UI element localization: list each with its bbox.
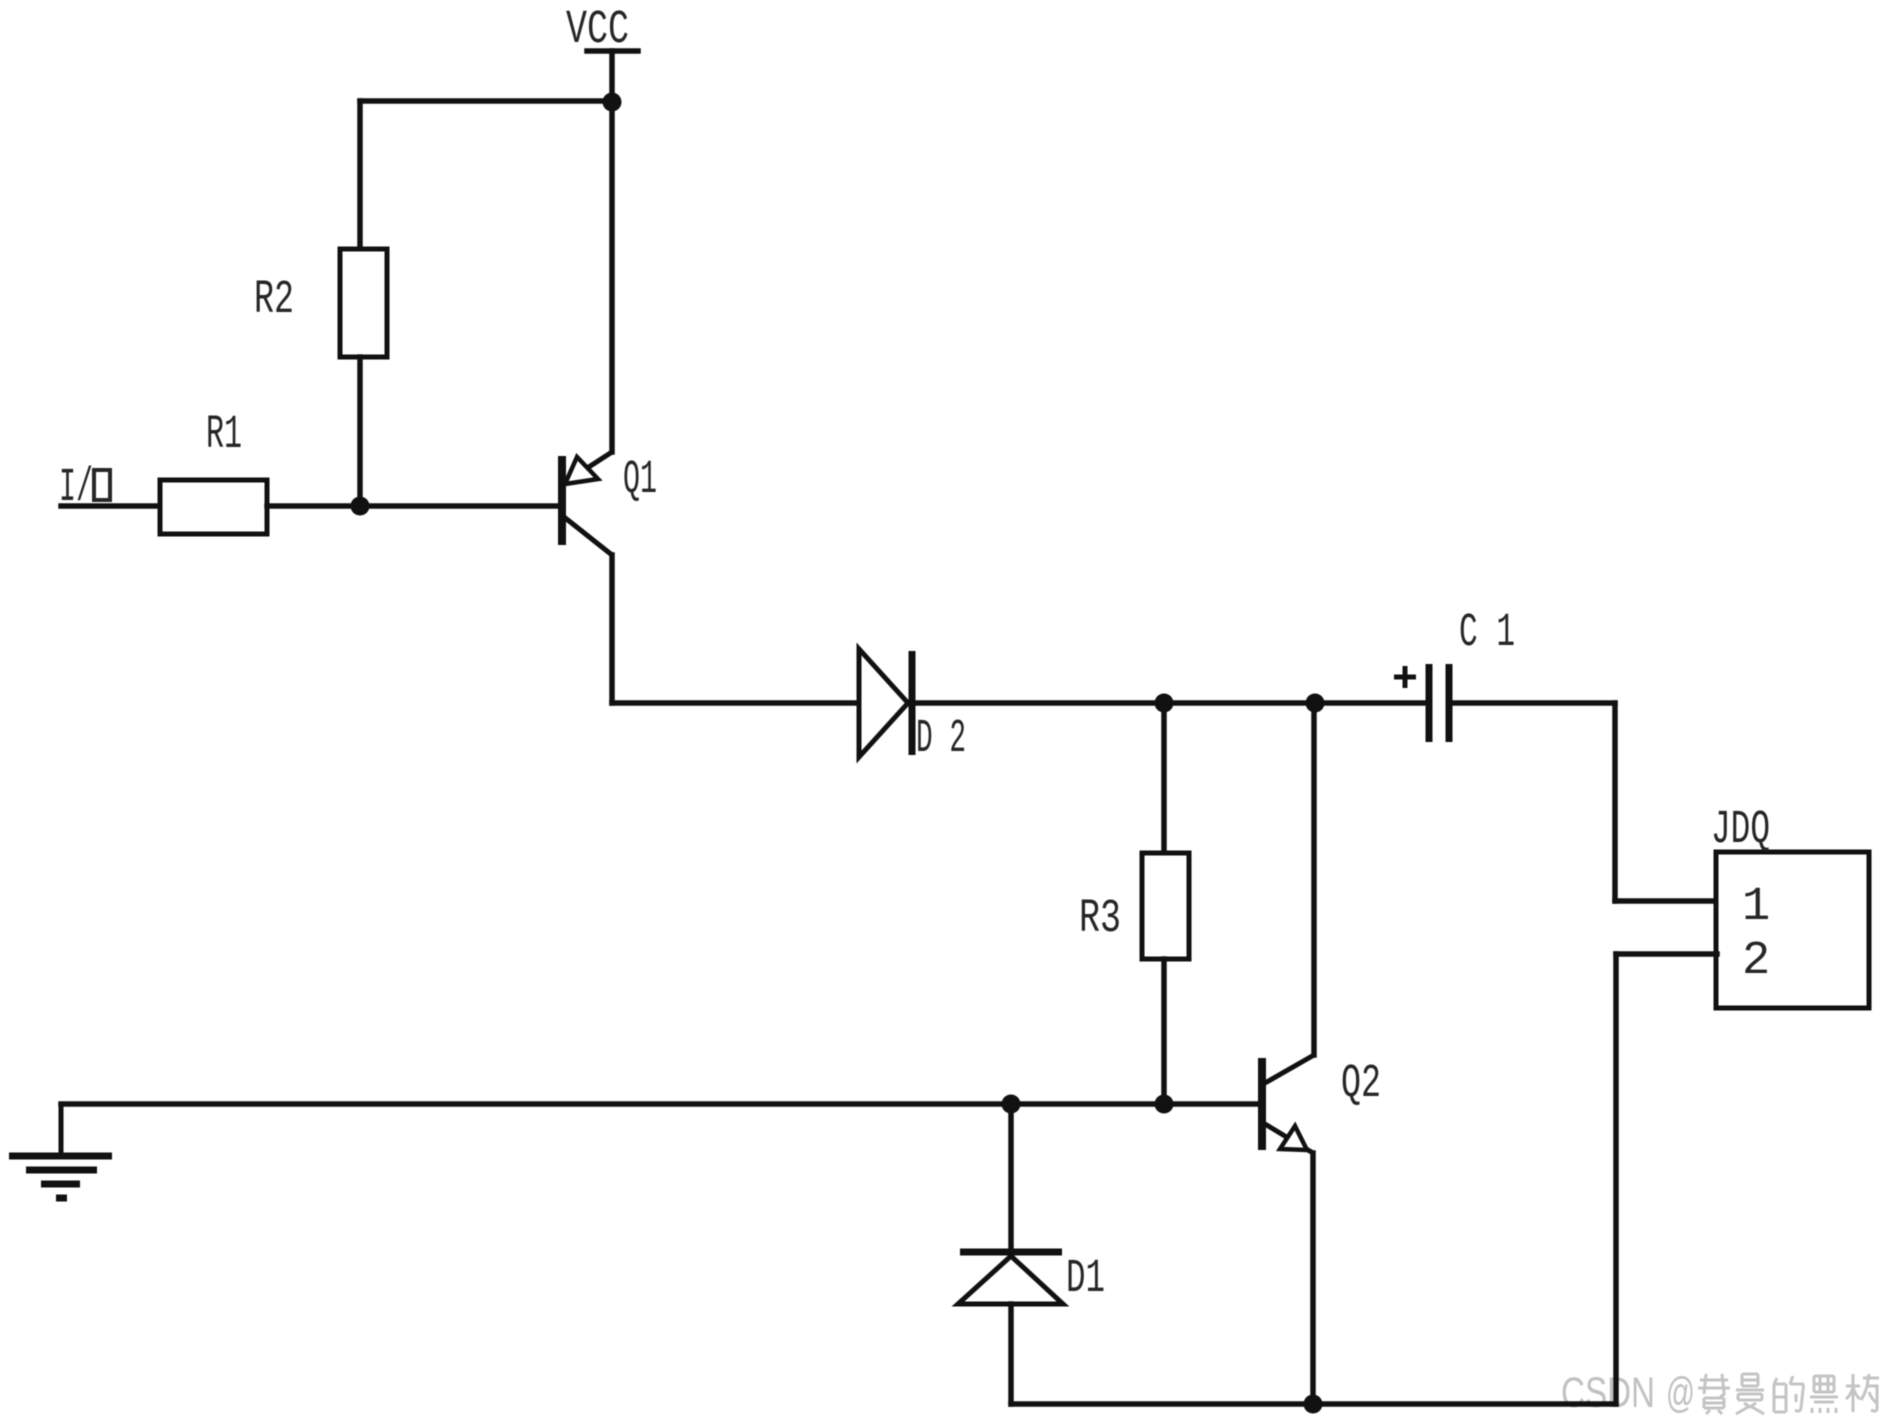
- transistor Q2: [1258, 1055, 1314, 1153]
- wire ground horizontal: [61, 1101, 1011, 1107]
- diode D1: [958, 1252, 1063, 1304]
- svg-text:2: 2: [1742, 935, 1770, 988]
- polarity + of C1: [1394, 666, 1416, 688]
- wire Q2 collector vertical: [1311, 703, 1317, 1055]
- wire C1 to corner: [1449, 700, 1615, 706]
- wire collector to D2: [612, 700, 859, 706]
- junction dot R3 node: [1155, 694, 1174, 713]
- wire Q1 emitter vertical: [609, 102, 615, 452]
- ground: [9, 1104, 112, 1198]
- svg-text:Q1: Q1: [623, 454, 657, 507]
- wire R1 to Q1 base: [267, 503, 559, 509]
- wire pin2 vertical: [1613, 954, 1619, 1404]
- wire to Q2 base: [1164, 1101, 1259, 1107]
- transistor Q1: [558, 452, 612, 555]
- svg-text:JDQ: JDQ: [1711, 804, 1770, 857]
- svg-text:R1: R1: [206, 409, 242, 462]
- diode D2: [859, 649, 912, 757]
- watermark chinese characters: [1698, 1374, 1879, 1414]
- wire corner down to pin1 level: [1612, 703, 1618, 901]
- wire D1 bottom lead: [1008, 1304, 1014, 1404]
- svg-text:1: 1: [1742, 881, 1770, 934]
- junction dot D1 node: [1002, 1095, 1021, 1114]
- svg-text:VCC: VCC: [566, 4, 629, 57]
- svg-text:Q2: Q2: [1341, 1058, 1381, 1111]
- junction dot R3 bottom node: [1155, 1095, 1174, 1114]
- svg-text:@: @: [1666, 1369, 1695, 1417]
- wire R2 top lead: [357, 101, 363, 249]
- wire Q1 collector vertical: [609, 555, 615, 703]
- wire R3 top lead: [1161, 703, 1167, 853]
- wire D2 to C1: [912, 700, 1429, 706]
- svg-text:D1: D1: [1066, 1253, 1105, 1306]
- power VCC: [587, 51, 638, 102]
- resistor R2: [340, 249, 387, 357]
- wire R2 bottom lead: [357, 357, 363, 506]
- wire R3 bottom lead: [1161, 959, 1167, 1104]
- junction dot base node: [351, 497, 370, 516]
- wire Q2 emitter vertical: [1310, 1153, 1316, 1404]
- resistor R3: [1142, 853, 1189, 959]
- wire pin1 horizontal: [1615, 898, 1717, 904]
- junction dot Q2 collector node: [1306, 694, 1325, 713]
- wire top horizontal: [360, 98, 612, 104]
- svg-text:D 2: D 2: [916, 713, 966, 766]
- svg-text:R3: R3: [1079, 893, 1121, 946]
- svg-text:CSDN: CSDN: [1561, 1369, 1655, 1417]
- capacitor C1: [1429, 664, 1449, 742]
- net label I/O: [59, 462, 110, 515]
- svg-text:R2: R2: [254, 274, 294, 327]
- wire D1 top lead: [1008, 1104, 1014, 1252]
- resistor R1: [160, 480, 267, 534]
- wire bottom horizontal: [1011, 1401, 1616, 1407]
- relay JDQ: [1716, 852, 1869, 1008]
- junction dot bottom node: [1304, 1395, 1323, 1414]
- junction dot VCC node: [603, 93, 622, 112]
- svg-text:C 1: C 1: [1459, 607, 1515, 660]
- wire I/O lead: [61, 503, 160, 509]
- wire pin2 horizontal: [1616, 951, 1717, 957]
- watermark CSDN: [1561, 1369, 1695, 1417]
- wire D1 node to R3 node: [1011, 1101, 1164, 1107]
